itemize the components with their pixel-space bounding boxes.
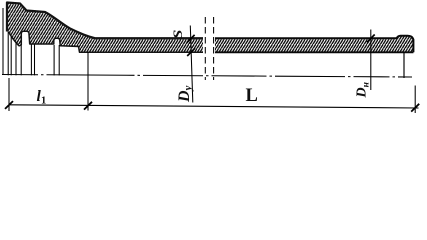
- tick at socket end: [84, 102, 92, 110]
- flare circle edge line 2: [15, 42, 17, 75]
- flare circle edge line 1: [10, 37, 12, 75]
- barrel inner edge right of break: [215, 51, 413, 53]
- barrel outer edge with spigot bead: [215, 36, 413, 53]
- extension line at socket end: [87, 52, 89, 110]
- groove 2 right edge line: [58, 45, 60, 75]
- bell outer contour: [7, 3, 203, 39]
- extension line at spigot end: [414, 86, 416, 114]
- svg-text:Dн: Dн: [354, 82, 371, 98]
- spigot end inner circle edge line: [403, 53, 405, 79]
- tick at mouth: [5, 101, 13, 109]
- tick S at outer surface: [187, 35, 195, 43]
- mouth face edge line to axis: [7, 32, 9, 76]
- wall thickness / bore diameter dimension line (S and Dy): [190, 26, 193, 103]
- tick Dn at outer surface: [367, 35, 375, 43]
- bell inner contour (socket bore with caulking grooves): [9, 31, 204, 52]
- break line left: [204, 17, 206, 80]
- groove 1 left edge line: [20, 45, 22, 76]
- tick at spigot end: [411, 104, 419, 112]
- svg-text:1: 1: [41, 96, 46, 107]
- main dimension line (l1 and L): [9, 105, 419, 108]
- barrel section right of break (hatched cut, spigot bead at end): [215, 36, 413, 53]
- groove 2 left edge line: [53, 45, 55, 75]
- pipe axis centerline (dash-dot): [2, 75, 412, 78]
- svg-text:S: S: [171, 30, 185, 39]
- extension line at socket mouth: [8, 78, 10, 111]
- projection line of mouth rim circle: [2, 8, 4, 75]
- break line right: [213, 17, 215, 80]
- bore step edge line: [34, 45, 36, 76]
- svg-text:Dу: Dу: [176, 85, 194, 103]
- svg-text:L: L: [246, 86, 258, 106]
- tick S/Dy at inner surface: [187, 48, 195, 56]
- groove 1 right edge line: [30, 44, 32, 75]
- outer diameter dimension line Dn: [370, 30, 372, 91]
- socket bell section (hatched cut): [7, 3, 203, 53]
